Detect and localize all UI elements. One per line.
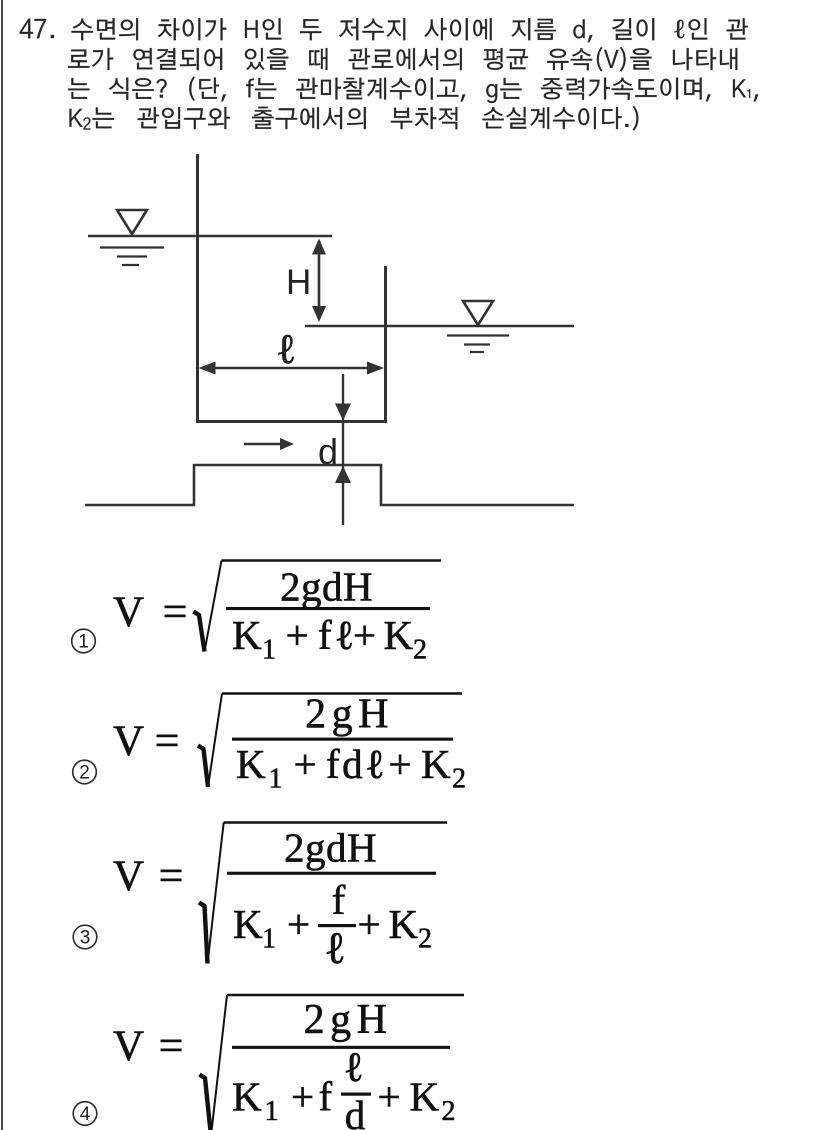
- svg-text:2gH: 2gH: [304, 997, 393, 1043]
- svg-text:ℓ: ℓ: [324, 923, 346, 973]
- svg-text:K: K: [232, 1074, 262, 1120]
- svg-text:K: K: [421, 741, 451, 787]
- svg-text:H: H: [286, 263, 311, 302]
- svg-text:K: K: [236, 741, 266, 787]
- left water surface line: [88, 235, 332, 237]
- svg-text:+: +: [293, 741, 316, 787]
- svg-text:3: 3: [80, 928, 91, 949]
- svg-text:=: =: [159, 851, 184, 900]
- svg-text:V: V: [113, 853, 144, 900]
- choice marker (2): [73, 760, 97, 784]
- choice marker (4): [73, 1102, 97, 1126]
- svg-text:+: +: [291, 1074, 314, 1120]
- svg-text:1: 1: [262, 924, 276, 955]
- svg-text:f: f: [332, 877, 346, 923]
- dimension d vertical line: [342, 374, 344, 525]
- svg-text:4: 4: [80, 1104, 91, 1125]
- svg-text:V: V: [113, 589, 144, 636]
- svg-text:=: =: [159, 1021, 184, 1070]
- svg-text:+: +: [388, 741, 411, 787]
- pipe bottom step profile: [85, 465, 574, 505]
- dimension H arrow: [318, 241, 321, 319]
- svg-text:fℓ: fℓ: [318, 612, 357, 658]
- question text line 4: [70, 106, 639, 130]
- svg-text:ℓ: ℓ: [276, 327, 296, 373]
- svg-text:K: K: [410, 1074, 440, 1120]
- reservoir wall left vertical: [196, 154, 199, 422]
- svg-text:+: +: [285, 612, 308, 658]
- column divider line at left edge: [1, 0, 3, 1130]
- svg-text:K: K: [384, 612, 414, 658]
- question text line 3: [68, 77, 758, 104]
- right water surface nabla symbol: [463, 301, 493, 325]
- dimension l arrow: [202, 367, 381, 370]
- question number 47.: [20, 19, 54, 39]
- question text line 2: [68, 47, 737, 71]
- svg-text:=: =: [155, 716, 180, 765]
- svg-text:2: 2: [418, 924, 432, 955]
- svg-text:2: 2: [79, 763, 90, 784]
- svg-text:fdℓ: fdℓ: [326, 741, 387, 787]
- svg-text:K: K: [233, 901, 263, 947]
- svg-text:1: 1: [265, 1096, 279, 1127]
- svg-text:2gH: 2gH: [305, 692, 394, 738]
- svg-text:V: V: [113, 718, 144, 765]
- svg-text:K: K: [232, 612, 262, 658]
- svg-text:K: K: [389, 901, 419, 947]
- svg-text:f: f: [319, 1074, 333, 1120]
- svg-text:1: 1: [269, 764, 283, 795]
- svg-text:ℓ: ℓ: [343, 1045, 363, 1091]
- choice marker (3): [73, 925, 97, 949]
- svg-text:2: 2: [452, 764, 466, 795]
- question text line 1: [72, 18, 748, 42]
- svg-text:+: +: [287, 901, 310, 947]
- svg-text:+: +: [357, 901, 380, 947]
- svg-text:2gdH: 2gdH: [284, 825, 377, 871]
- flow direction arrow: [244, 443, 282, 446]
- svg-text:2gdH: 2gdH: [280, 564, 373, 610]
- svg-text:1: 1: [78, 632, 89, 653]
- reservoir wall right vertical: [384, 266, 387, 422]
- svg-text:+: +: [353, 612, 376, 658]
- svg-text:d: d: [345, 1092, 366, 1130]
- right water surface line: [305, 325, 574, 327]
- svg-text:1: 1: [262, 635, 276, 666]
- svg-text:+: +: [377, 1074, 400, 1120]
- svg-text:2: 2: [413, 635, 427, 666]
- svg-text:2: 2: [442, 1096, 456, 1127]
- svg-text:=: =: [163, 587, 188, 636]
- left water surface nabla symbol: [117, 210, 147, 234]
- svg-text:V: V: [113, 1023, 144, 1070]
- pipe top horizontal line: [196, 420, 387, 423]
- choice marker (1): [72, 629, 96, 653]
